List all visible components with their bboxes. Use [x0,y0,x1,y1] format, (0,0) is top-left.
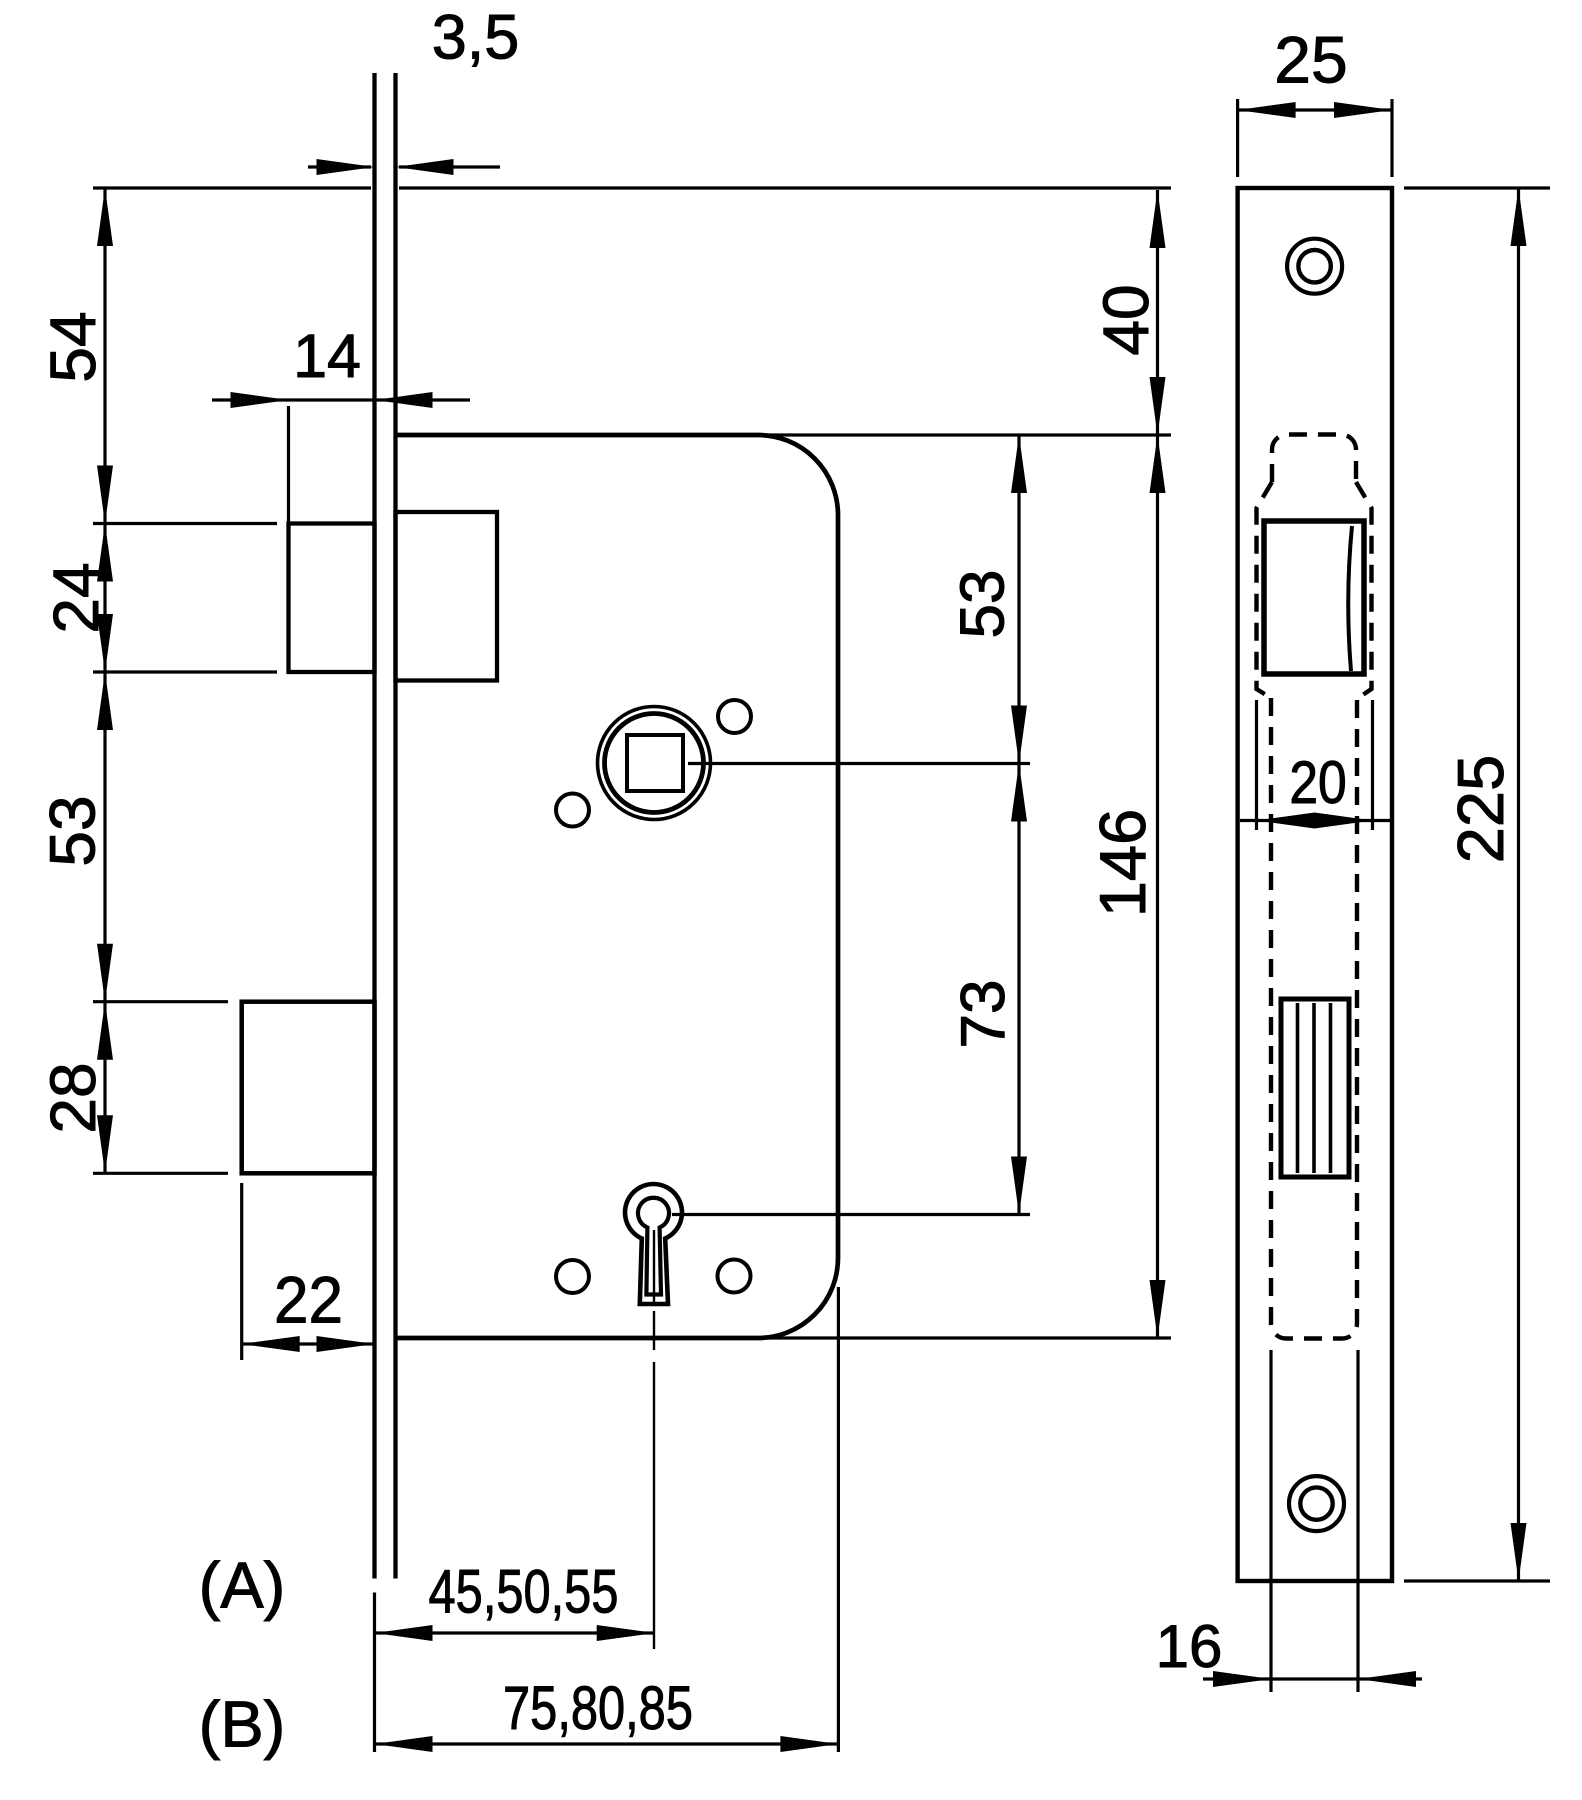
svg-text:225: 225 [1444,755,1517,863]
svg-text:25: 25 [1274,23,1347,97]
svg-text:20: 20 [1289,748,1346,816]
svg-text:24: 24 [40,562,112,633]
svg-text:14: 14 [293,322,361,390]
svg-text:(A): (A) [199,1548,286,1621]
svg-text:54: 54 [37,311,109,382]
svg-text:28: 28 [37,1062,109,1133]
svg-text:(B): (B) [199,1687,286,1760]
svg-text:45,50,55: 45,50,55 [429,1557,619,1625]
svg-text:16: 16 [1156,1613,1223,1680]
svg-text:22: 22 [274,1263,343,1337]
svg-text:53: 53 [36,795,108,866]
svg-text:75,80,85: 75,80,85 [503,1674,693,1742]
svg-text:40: 40 [1090,284,1162,355]
svg-text:73: 73 [949,980,1018,1049]
svg-text:53: 53 [949,570,1018,639]
svg-text:146: 146 [1086,809,1159,917]
svg-text:3,5: 3,5 [432,3,520,73]
